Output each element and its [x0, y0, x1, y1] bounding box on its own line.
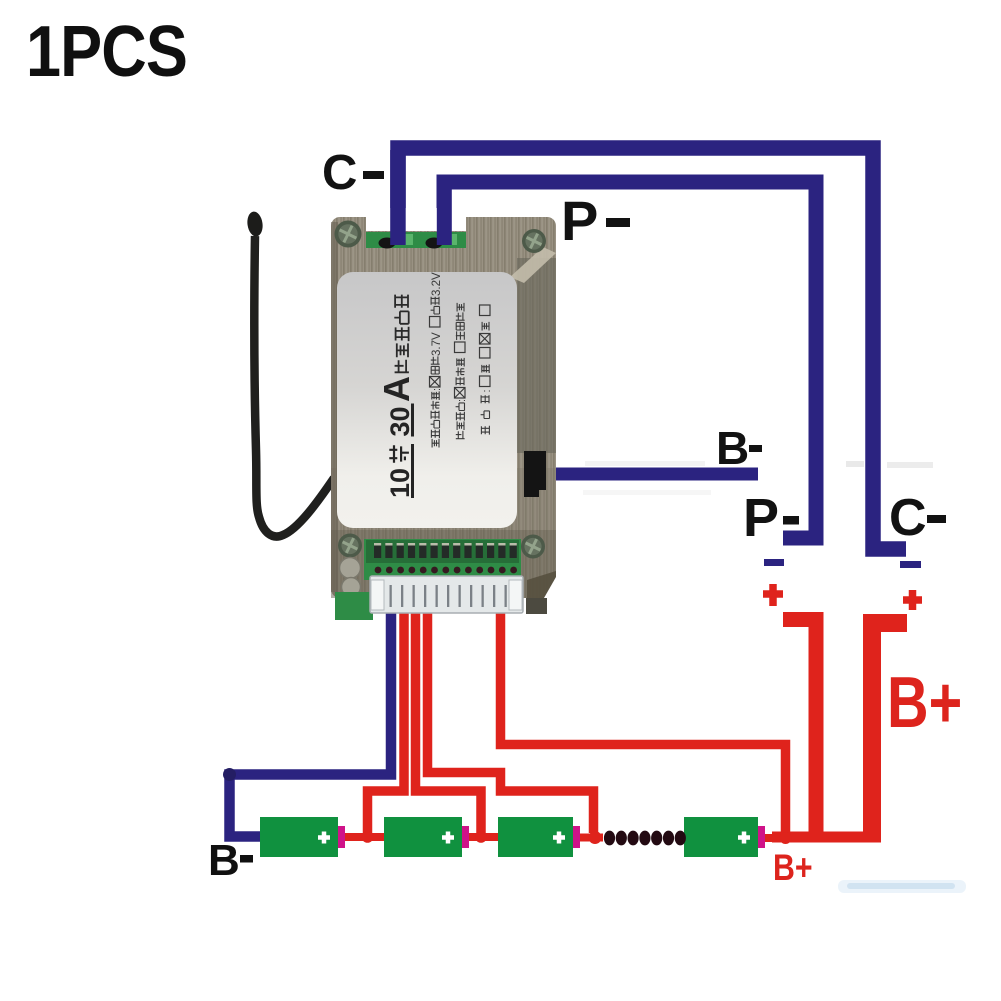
svg-text:P: P [561, 189, 598, 252]
svg-text:3.7V: 3.7V [431, 332, 443, 356]
svg-text::: : [481, 389, 493, 392]
balance wire 4 (red, to pack B+ junction) [501, 605, 786, 834]
BMS board aluminum plate [331, 217, 556, 598]
svg-text:C: C [322, 146, 357, 200]
PCB green corner bottom-left [335, 592, 373, 620]
battery cell B2 plus mark [442, 832, 454, 844]
standoff bumps left edge [340, 558, 361, 579]
faint watermark bottom right [838, 880, 966, 893]
svg-text:30: 30 [385, 406, 415, 436]
plus mark for P+ (left red) [763, 584, 783, 606]
dark plate piece below connector right [526, 598, 547, 614]
screw top-left [335, 221, 362, 248]
junction node J2 cell2+ [475, 831, 487, 843]
svg-text:3.2V: 3.2V [431, 272, 443, 296]
battery cell B3 body [498, 817, 573, 857]
svg-text:P: P [743, 488, 779, 548]
wire cell3+ toward dotted cells [580, 834, 603, 842]
label B+ big [887, 662, 962, 743]
wire B- horizontal from board right connector [536, 468, 758, 481]
balance wire 3 (red, staircase to cell3+ junction) [428, 605, 594, 833]
thick B+ wire left (to P+ output) [783, 620, 816, 838]
battery cell B4 plus mark [738, 832, 750, 844]
svg-text:B: B [208, 836, 240, 885]
thermistor probe wire (black, left of board) [254, 236, 334, 536]
battery cell B3 positive terminal [573, 826, 580, 848]
svg-text::: : [431, 388, 443, 391]
svg-text:A: A [376, 376, 417, 402]
junction node J4 pack B+ [780, 832, 792, 844]
battery cell B3 plus mark [553, 832, 565, 844]
plate top notch background [366, 208, 466, 231]
balance wire 2 (red, to cell2+ junction) [416, 605, 482, 833]
black output connector on right edge (B- lead) [524, 451, 546, 490]
svg-text::: : [456, 399, 468, 402]
balance connector pin slots [390, 585, 392, 607]
svg-text:B+: B+ [773, 847, 813, 889]
plate bottom-right shadow [527, 571, 556, 598]
thick B+ wire right (to C+ output) [872, 623, 907, 837]
PCB green strip top with solder pads [366, 232, 466, 248]
junction node J3 cell3+ [589, 831, 602, 844]
screw bottom-right [521, 535, 545, 559]
wire B- from balance connector to battery pack negative [230, 605, 392, 837]
faint watermark smudge near B- wire [846, 461, 864, 467]
screw bottom-left [338, 534, 362, 558]
svg-text:1PCS: 1PCS [26, 12, 187, 92]
wire P- (pack negative, navy from board top to right side hook) [444, 182, 816, 538]
junction node J1 cell1+ [362, 831, 374, 843]
balance connector white housing [370, 576, 523, 613]
balance wire 1 (red, to cell1+ junction) [368, 605, 405, 833]
wire C- stub entering board pad [390, 150, 406, 245]
wire cell1+ to cell2- [344, 833, 384, 841]
thermistor probe tip [246, 211, 264, 238]
plate shading right edge [517, 258, 556, 453]
battery cell B1 positive terminal [338, 826, 345, 848]
junction node on B- wire [223, 768, 236, 781]
battery cell B4 positive terminal [758, 826, 765, 848]
svg-text:B: B [716, 422, 749, 474]
svg-text:10: 10 [385, 468, 415, 498]
PCB green strip bottom with components [364, 539, 521, 580]
label text rotated (10S 30A li-ion protection board)', chinese glyph strokes [376, 272, 493, 498]
battery cell B2 positive terminal [462, 826, 469, 848]
plate highlight top-right corner [510, 247, 556, 283]
svg-text:C: C [889, 489, 927, 547]
plate bottom-right corner cut [544, 577, 556, 598]
dotted omitted cells marks [604, 831, 615, 846]
plate shading left edge [331, 222, 338, 592]
faint watermark dashes left of B- label [585, 461, 705, 466]
battery cell B1 plus mark [318, 832, 330, 844]
battery cell B1 body [260, 817, 338, 857]
wire C- (charge negative, navy from board top to right side hook) [398, 148, 906, 549]
minus mark for P- output [764, 559, 784, 566]
screw top-right [522, 229, 546, 253]
minus mark for C- output [900, 561, 921, 568]
battery cell B4 body [684, 817, 758, 857]
text 1PCS quantity label [26, 12, 187, 92]
battery cell B2 body [384, 817, 462, 857]
white product label on board [337, 272, 517, 528]
label B+ small [773, 847, 813, 889]
wire P- stub entering board pad [437, 184, 452, 245]
plus mark for C+ (right red) [903, 590, 922, 610]
thick B+ bus bar bottom [772, 832, 881, 843]
wire cell10+ to B+ junction [765, 834, 782, 842]
wire cell2+ to cell3- [469, 833, 498, 841]
plate shading bottom [331, 468, 556, 530]
svg-text:B+: B+ [887, 662, 962, 743]
